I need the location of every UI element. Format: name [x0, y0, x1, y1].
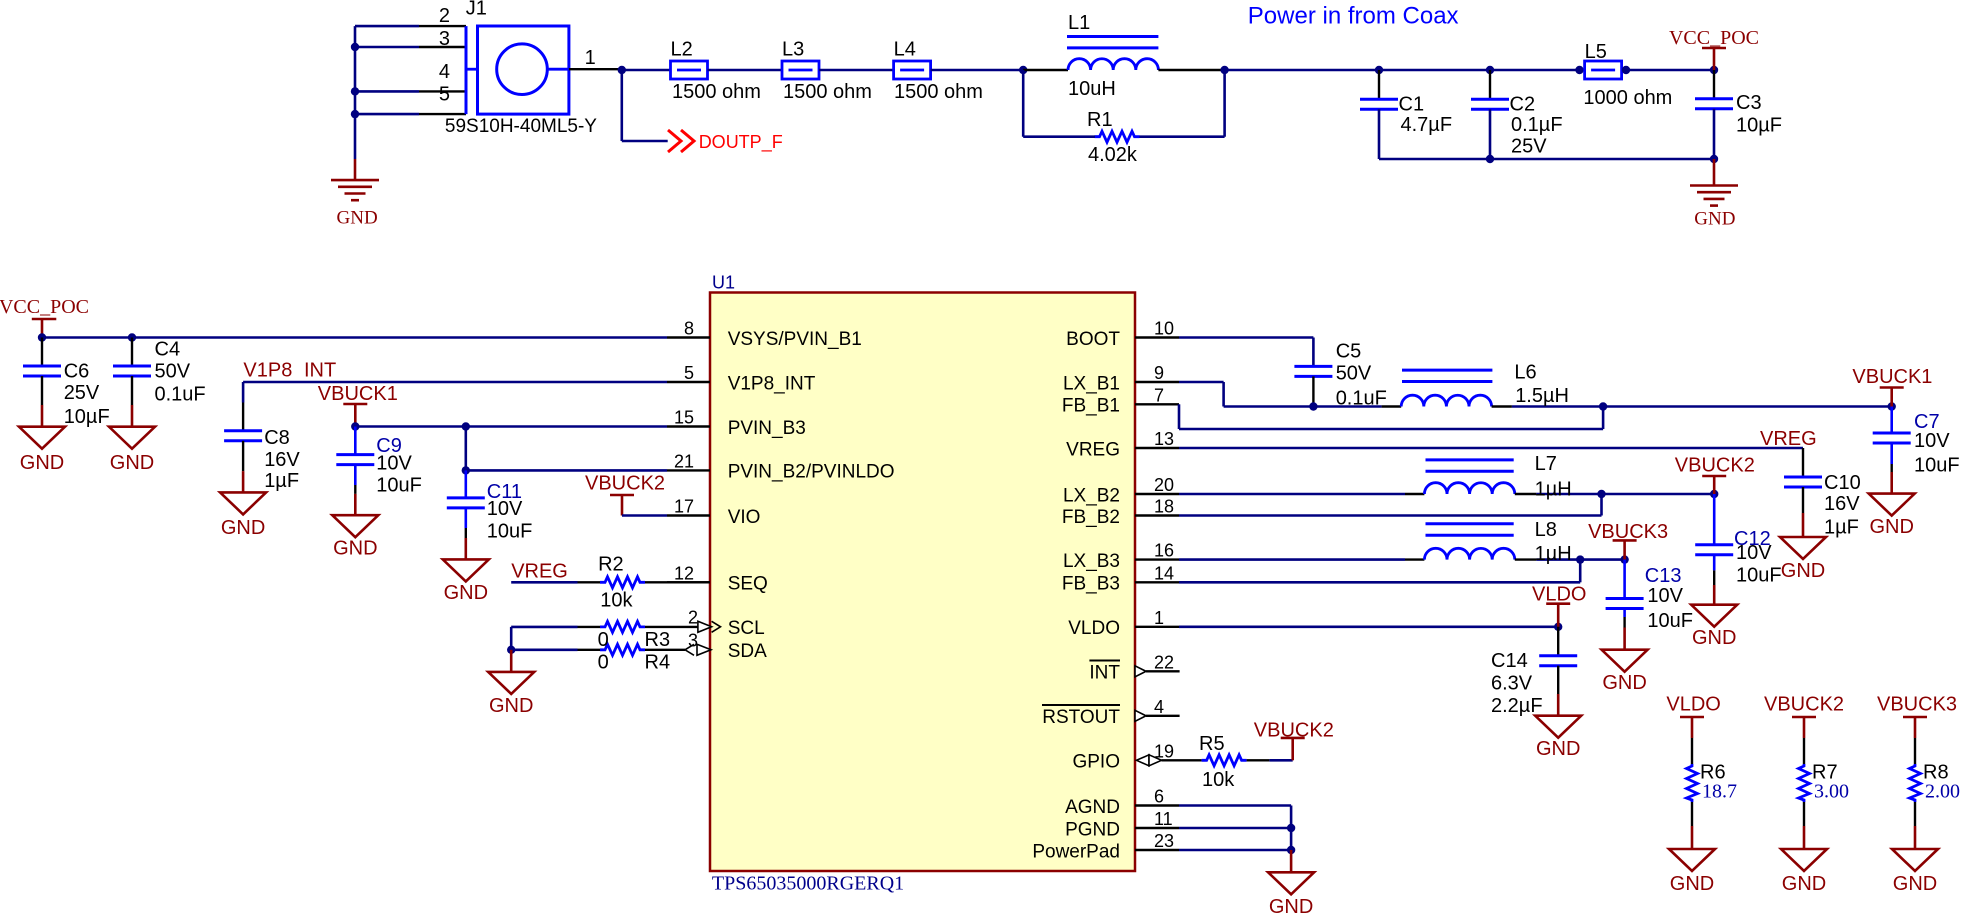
svg-text:4.02k: 4.02k: [1088, 144, 1138, 166]
svg-text:VCC_POC: VCC_POC: [0, 296, 89, 318]
svg-text:GND: GND: [333, 538, 377, 560]
svg-text:L1: L1: [1068, 12, 1090, 34]
svg-text:GND: GND: [444, 582, 488, 604]
svg-text:20: 20: [1154, 475, 1174, 495]
svg-text:VSYS/PVIN_B1: VSYS/PVIN_B1: [728, 329, 862, 350]
svg-text:FB_B1: FB_B1: [1062, 396, 1120, 417]
svg-text:12: 12: [674, 563, 694, 583]
svg-text:25V: 25V: [1511, 136, 1547, 158]
svg-text:VBUCK1: VBUCK1: [318, 383, 398, 405]
svg-text:4: 4: [439, 61, 450, 83]
svg-text:C3: C3: [1736, 92, 1762, 114]
svg-text:1µH: 1µH: [1535, 479, 1572, 501]
svg-text:R5: R5: [1199, 733, 1225, 755]
svg-text:PVIN_B2/PVINLDO: PVIN_B2/PVINLDO: [728, 462, 895, 483]
svg-text:C6: C6: [64, 360, 90, 382]
svg-text:L7: L7: [1535, 453, 1557, 475]
svg-text:LX_B2: LX_B2: [1063, 485, 1120, 506]
svg-text:INT: INT: [1089, 663, 1120, 684]
svg-text:6.3V: 6.3V: [1491, 673, 1533, 695]
svg-text:GND: GND: [1869, 516, 1913, 538]
svg-text:2: 2: [439, 5, 450, 27]
svg-text:10uH: 10uH: [1068, 78, 1116, 100]
svg-text:11: 11: [1154, 809, 1173, 829]
svg-text:GND: GND: [1536, 738, 1580, 760]
svg-text:AGND: AGND: [1065, 797, 1120, 818]
svg-text:VLDO: VLDO: [1068, 618, 1120, 639]
svg-text:GPIO: GPIO: [1072, 752, 1120, 773]
svg-text:R2: R2: [598, 554, 624, 576]
svg-text:VCC_POC: VCC_POC: [1669, 27, 1759, 49]
svg-text:10uF: 10uF: [1647, 610, 1693, 632]
svg-text:VREG: VREG: [1760, 428, 1817, 450]
svg-text:1µF: 1µF: [264, 470, 299, 492]
svg-text:GND: GND: [110, 452, 154, 474]
svg-text:0: 0: [598, 629, 609, 651]
svg-text:6: 6: [1154, 787, 1164, 807]
svg-text:10k: 10k: [1202, 769, 1235, 791]
svg-text:GND: GND: [337, 208, 378, 229]
svg-text:L5: L5: [1585, 41, 1607, 63]
svg-text:21: 21: [674, 451, 694, 471]
svg-text:RSTOUT: RSTOUT: [1042, 707, 1120, 728]
svg-text:GND: GND: [221, 517, 265, 539]
svg-text:16V: 16V: [264, 449, 300, 471]
svg-text:SCL: SCL: [728, 618, 765, 639]
svg-text:U1: U1: [712, 272, 735, 292]
svg-text:TPS65035000RGERQ1: TPS65035000RGERQ1: [712, 873, 904, 895]
svg-text:10V: 10V: [1914, 430, 1950, 452]
svg-text:C13: C13: [1645, 565, 1682, 587]
svg-text:R4: R4: [645, 651, 671, 673]
svg-text:VIO: VIO: [728, 507, 761, 528]
svg-text:C5: C5: [1336, 340, 1362, 362]
svg-text:15: 15: [674, 408, 694, 428]
svg-text:C10: C10: [1824, 472, 1861, 494]
svg-text:V1P8_INT: V1P8_INT: [728, 373, 816, 394]
svg-text:L3: L3: [782, 39, 804, 61]
svg-text:7: 7: [1154, 385, 1164, 405]
svg-text:1µH: 1µH: [1535, 543, 1572, 565]
svg-text:DOUTP_F: DOUTP_F: [699, 132, 783, 153]
svg-text:1500 ohm: 1500 ohm: [894, 81, 983, 103]
svg-text:VLDO: VLDO: [1666, 693, 1720, 715]
svg-text:1000 ohm: 1000 ohm: [1583, 87, 1672, 109]
svg-text:10V: 10V: [487, 498, 523, 520]
svg-text:GND: GND: [1670, 873, 1714, 895]
svg-text:0: 0: [598, 651, 609, 673]
svg-text:17: 17: [674, 497, 694, 517]
svg-text:10µF: 10µF: [1736, 115, 1782, 137]
svg-text:C14: C14: [1491, 650, 1528, 672]
svg-text:PowerPad: PowerPad: [1032, 841, 1120, 862]
svg-text:C4: C4: [155, 339, 181, 361]
svg-text:GND: GND: [20, 452, 64, 474]
svg-text:18.7: 18.7: [1702, 781, 1737, 803]
svg-text:FB_B3: FB_B3: [1062, 574, 1120, 595]
svg-text:L6: L6: [1514, 361, 1536, 383]
svg-text:9: 9: [1154, 363, 1164, 383]
svg-text:10uF: 10uF: [1914, 455, 1960, 477]
svg-text:0.1uF: 0.1uF: [155, 384, 206, 406]
svg-text:2.00: 2.00: [1925, 781, 1960, 803]
svg-text:L2: L2: [671, 39, 693, 61]
svg-text:13: 13: [1154, 429, 1174, 449]
svg-text:4: 4: [1154, 697, 1164, 717]
svg-text:R1: R1: [1087, 109, 1113, 131]
svg-text:J1: J1: [466, 0, 487, 19]
svg-text:3: 3: [439, 28, 450, 50]
svg-text:LX_B3: LX_B3: [1063, 551, 1120, 572]
svg-text:V1P8: V1P8: [243, 360, 292, 382]
svg-text:VBUCK1: VBUCK1: [1852, 366, 1932, 388]
svg-text:10V: 10V: [1647, 585, 1683, 607]
svg-text:10uF: 10uF: [487, 520, 533, 542]
svg-text:C8: C8: [264, 427, 290, 449]
svg-text:1: 1: [1154, 608, 1164, 628]
svg-text:1500 ohm: 1500 ohm: [783, 81, 872, 103]
svg-text:INT: INT: [304, 360, 336, 382]
svg-text:L8: L8: [1535, 519, 1557, 541]
svg-text:5: 5: [439, 84, 450, 106]
svg-text:8: 8: [684, 319, 694, 339]
svg-text:25V: 25V: [64, 382, 100, 404]
svg-text:VREG: VREG: [511, 560, 568, 582]
svg-text:VBUCK3: VBUCK3: [1877, 693, 1957, 715]
svg-text:VBUCK2: VBUCK2: [1764, 693, 1844, 715]
svg-text:16: 16: [1154, 541, 1174, 561]
svg-text:3.00: 3.00: [1814, 781, 1849, 803]
svg-text:VBUCK2: VBUCK2: [1675, 455, 1755, 477]
svg-text:R3: R3: [645, 629, 671, 651]
svg-text:FB_B2: FB_B2: [1062, 507, 1120, 528]
svg-text:Power in from Coax: Power in from Coax: [1248, 3, 1459, 30]
svg-text:VREG: VREG: [1066, 439, 1120, 460]
svg-text:GND: GND: [1893, 873, 1937, 895]
svg-text:GND: GND: [1781, 560, 1825, 582]
svg-text:GND: GND: [1269, 896, 1313, 918]
svg-text:10V: 10V: [1736, 542, 1772, 564]
svg-text:10k: 10k: [600, 589, 633, 611]
svg-text:18: 18: [1154, 497, 1174, 517]
svg-text:GND: GND: [489, 695, 533, 717]
svg-text:C2: C2: [1510, 94, 1536, 116]
svg-text:PGND: PGND: [1065, 819, 1120, 840]
svg-text:0.1µF: 0.1µF: [1511, 114, 1563, 136]
svg-text:GND: GND: [1692, 627, 1736, 649]
svg-text:2: 2: [688, 608, 698, 628]
svg-text:1500 ohm: 1500 ohm: [672, 81, 761, 103]
svg-text:PVIN_B3: PVIN_B3: [728, 418, 806, 439]
svg-text:14: 14: [1154, 563, 1174, 583]
svg-text:4.7µF: 4.7µF: [1401, 114, 1453, 136]
svg-text:50V: 50V: [155, 360, 191, 382]
svg-text:GND: GND: [1782, 873, 1826, 895]
svg-text:3: 3: [688, 630, 698, 650]
svg-text:LX_B1: LX_B1: [1063, 373, 1120, 394]
svg-text:1: 1: [585, 47, 596, 69]
svg-text:SDA: SDA: [728, 641, 767, 662]
svg-text:SEQ: SEQ: [728, 574, 768, 595]
svg-text:16V: 16V: [1824, 493, 1860, 515]
svg-text:10V: 10V: [376, 453, 412, 475]
svg-text:50V: 50V: [1336, 363, 1372, 385]
svg-text:C1: C1: [1399, 94, 1425, 116]
svg-text:1.5µH: 1.5µH: [1515, 385, 1569, 407]
svg-text:BOOT: BOOT: [1066, 329, 1120, 350]
svg-text:59S10H-40ML5-Y: 59S10H-40ML5-Y: [445, 116, 597, 137]
svg-text:10uF: 10uF: [1736, 565, 1782, 587]
svg-text:10uF: 10uF: [376, 475, 422, 497]
svg-text:GND: GND: [1602, 672, 1646, 694]
svg-text:10µF: 10µF: [64, 406, 110, 428]
svg-text:23: 23: [1154, 831, 1174, 851]
svg-text:5: 5: [684, 363, 694, 383]
svg-text:L4: L4: [894, 39, 916, 61]
svg-text:2.2µF: 2.2µF: [1491, 695, 1543, 717]
svg-text:10: 10: [1154, 319, 1174, 339]
svg-text:GND: GND: [1694, 209, 1735, 230]
svg-text:1µF: 1µF: [1824, 517, 1859, 539]
svg-text:22: 22: [1154, 652, 1174, 672]
svg-text:VBUCK2: VBUCK2: [585, 473, 665, 495]
